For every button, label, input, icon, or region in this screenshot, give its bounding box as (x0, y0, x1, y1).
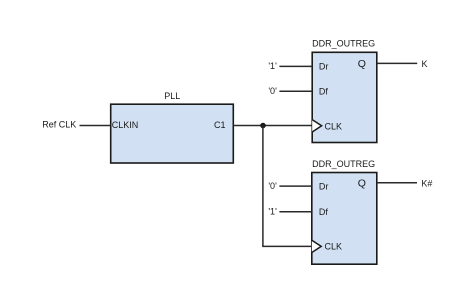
svg-text:Df: Df (319, 207, 328, 217)
svg-text:DDR_OUTREG: DDR_OUTREG (312, 38, 375, 48)
svg-text:CLKIN: CLKIN (112, 120, 139, 130)
svg-text:K#: K# (421, 178, 432, 188)
wire Q upper to K (377, 62, 417, 64)
svg-text:'0': '0' (268, 86, 277, 96)
wire '1' to Dr upper (279, 65, 312, 67)
pll U1 (111, 104, 234, 163)
svg-text:'1': '1' (268, 61, 277, 71)
svg-text:K: K (422, 59, 428, 69)
junction dot (260, 123, 266, 129)
svg-text:PLL: PLL (164, 91, 180, 101)
wire '0' to Df upper (279, 90, 312, 92)
register U2 DDR_OUTREG upper (312, 52, 377, 142)
svg-text:Q: Q (358, 58, 366, 70)
clock triangle lower (312, 240, 321, 252)
register U3 DDR_OUTREG lower (312, 173, 377, 265)
svg-text:Df: Df (319, 87, 328, 97)
wire PLL C1 to upper DDR CLK (233, 125, 312, 127)
svg-text:DDR_OUTREG: DDR_OUTREG (312, 159, 375, 169)
svg-text:Dr: Dr (319, 62, 329, 72)
svg-text:Q: Q (358, 178, 366, 190)
wire to lower DDR CLK (262, 245, 312, 247)
svg-text:Dr: Dr (319, 181, 329, 191)
wire '0' to Dr lower (279, 185, 311, 187)
svg-text:'1': '1' (268, 207, 277, 217)
svg-text:Ref CLK: Ref CLK (42, 119, 76, 129)
wire '1' to Df lower (279, 211, 311, 213)
svg-text:CLK: CLK (325, 122, 343, 132)
wire Ref CLK to PLL CLKIN (80, 125, 111, 127)
svg-text:C1: C1 (214, 120, 226, 130)
wire Q lower to K# (377, 182, 417, 184)
svg-text:CLK: CLK (325, 242, 343, 252)
wire junction down (262, 126, 264, 247)
svg-text:'0': '0' (268, 181, 277, 191)
clock triangle upper (312, 120, 321, 132)
